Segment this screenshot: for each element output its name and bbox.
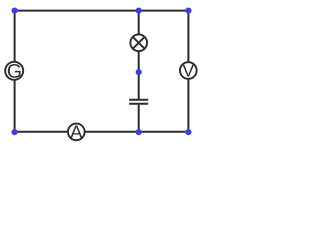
node top-left — [12, 8, 18, 14]
node bottom-right — [185, 129, 191, 135]
node bottom-middle — [136, 129, 142, 135]
capacitor C1 — [129, 100, 148, 104]
wire bottom — [15, 131, 189, 133]
ammeter A — [68, 124, 85, 141]
lamp L1 — [130, 34, 147, 51]
node mid-branch — [136, 69, 142, 75]
wire middle branch lower — [138, 105, 140, 132]
wire right — [187, 11, 189, 132]
node top-middle — [136, 8, 142, 14]
node top-right — [185, 8, 191, 14]
wire top — [15, 10, 189, 12]
node bottom-left — [12, 129, 18, 135]
wire left — [14, 11, 16, 132]
wire middle branch upper — [138, 11, 140, 99]
galvanometer G — [5, 62, 23, 80]
voltmeter V — [180, 62, 197, 79]
